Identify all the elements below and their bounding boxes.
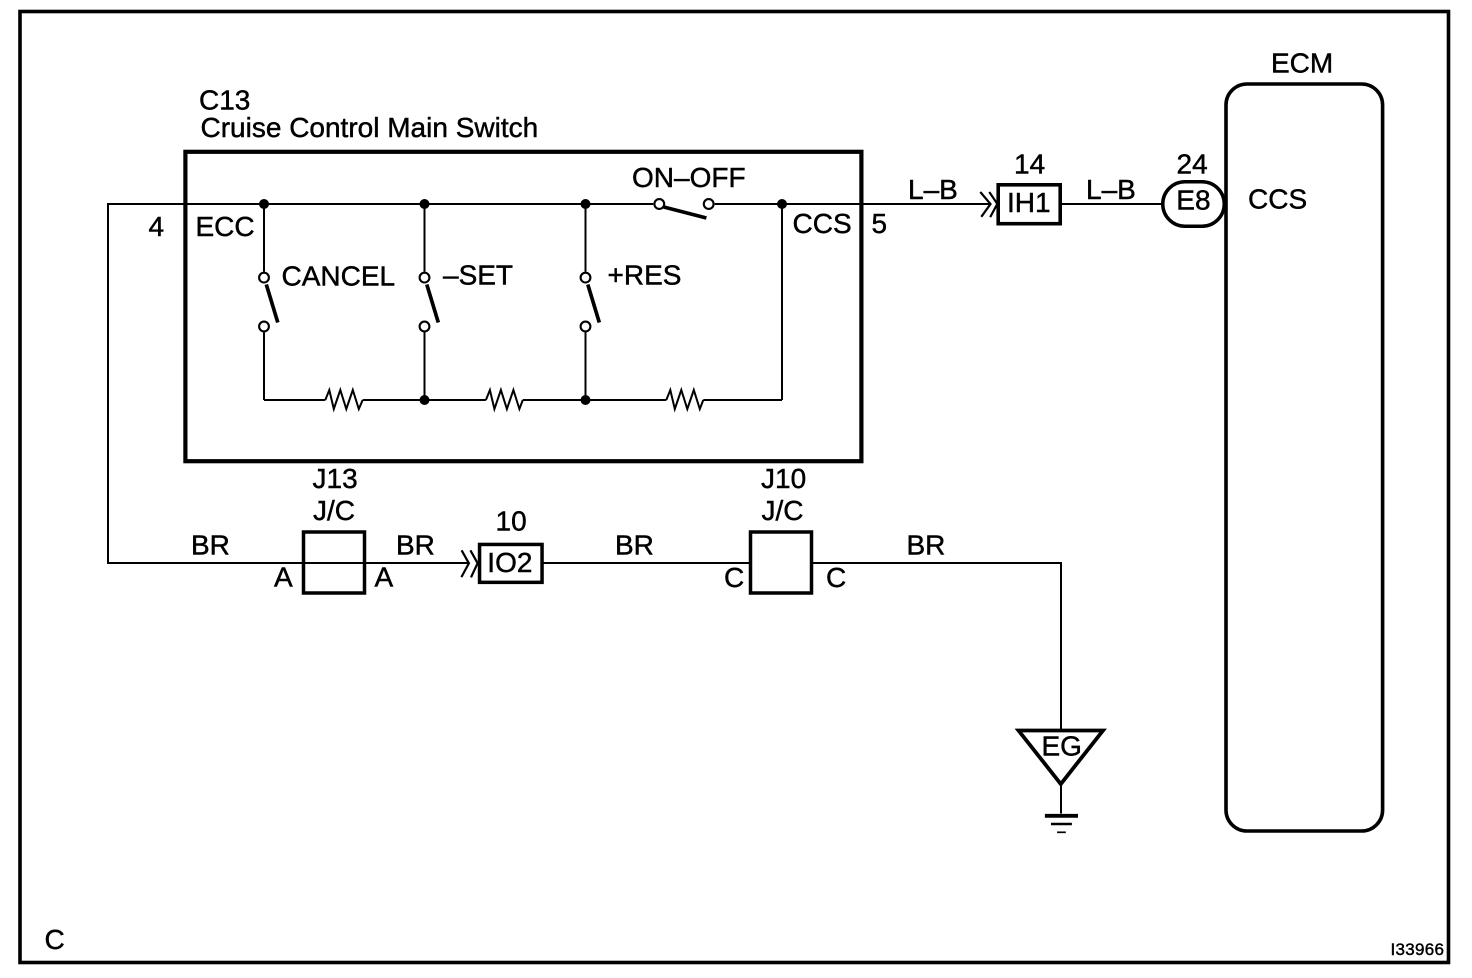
svg-text:ECC: ECC [196, 211, 255, 242]
svg-text:24: 24 [1177, 149, 1208, 180]
ground bar 1 [1045, 814, 1078, 818]
node rail RES [581, 395, 591, 405]
switch ON-OFF [654, 199, 713, 218]
wire ON-OFF to IH1 [715, 203, 991, 205]
svg-text:J10: J10 [761, 463, 806, 494]
wire IH1 to E8 [1062, 203, 1164, 205]
ground bar 3 [1057, 831, 1066, 833]
svg-text:CCS: CCS [1248, 184, 1307, 215]
svg-text:A: A [274, 562, 293, 593]
junction block J13 [304, 532, 365, 593]
svg-text:BR: BR [396, 530, 435, 561]
svg-text:EG: EG [1042, 731, 1082, 762]
wire main bus ECC to ON-OFF [186, 203, 654, 205]
svg-text:IO2: IO2 [487, 547, 532, 578]
resistor R-RES [666, 390, 703, 409]
resistor R-SET [486, 390, 523, 409]
node RES top [581, 199, 591, 209]
svg-text:CCS: CCS [793, 208, 852, 239]
svg-text:BR: BR [191, 530, 230, 561]
switch CANCEL branch [259, 204, 278, 400]
ECM module box [1226, 84, 1383, 831]
svg-text:E8: E8 [1176, 185, 1210, 216]
chevron into IH1 [980, 192, 997, 217]
svg-text:A: A [375, 562, 394, 593]
node rail SET [420, 395, 430, 405]
svg-text:C: C [45, 924, 65, 955]
svg-text:I33966: I33966 [1391, 940, 1445, 959]
svg-text:L–B: L–B [1086, 174, 1136, 205]
resistor R-CANCEL [325, 390, 362, 409]
connector IH1 [998, 185, 1060, 224]
node SET top [420, 199, 430, 209]
connector IO2 [480, 544, 543, 582]
wire CCS leg [781, 204, 783, 400]
svg-text:+RES: +RES [608, 260, 682, 291]
switch +RES branch [581, 204, 600, 400]
svg-text:C: C [724, 562, 744, 593]
switch block C13 box [185, 152, 861, 461]
svg-text:CANCEL: CANCEL [282, 261, 396, 292]
switch -SET branch [420, 204, 439, 400]
node CANCEL top [259, 199, 269, 209]
wire bottom rail segments [264, 399, 782, 401]
svg-text:10: 10 [496, 506, 527, 537]
node CCS [777, 199, 787, 209]
svg-text:C13: C13 [199, 85, 250, 116]
svg-text:ON–OFF: ON–OFF [632, 162, 746, 193]
svg-text:BR: BR [615, 530, 654, 561]
svg-text:BR: BR [907, 530, 946, 561]
svg-text:J/C: J/C [762, 495, 804, 526]
chevron into IO2 [461, 550, 477, 577]
ground stem [1060, 783, 1062, 814]
wire ECC pin4 to J13 (BR net) [108, 204, 469, 563]
svg-text:L–B: L–B [908, 174, 958, 205]
wire J10 to EG ground [812, 563, 1061, 729]
ground bar 2 [1051, 823, 1072, 825]
svg-text:IH1: IH1 [1007, 187, 1051, 218]
svg-text:5: 5 [872, 208, 888, 239]
ground EG triangle [1019, 731, 1104, 785]
svg-text:ECM: ECM [1271, 48, 1333, 79]
svg-text:Cruise Control Main Switch: Cruise Control Main Switch [201, 112, 539, 143]
svg-text:J/C: J/C [313, 495, 355, 526]
svg-text:–SET: –SET [443, 260, 513, 291]
svg-text:J13: J13 [313, 463, 358, 494]
junction block J10 [751, 532, 812, 593]
svg-text:C: C [826, 562, 846, 593]
wire IO2 to J10 [543, 562, 751, 564]
svg-text:14: 14 [1014, 149, 1045, 180]
connector E8 oval [1163, 182, 1225, 227]
svg-text:4: 4 [149, 211, 165, 242]
